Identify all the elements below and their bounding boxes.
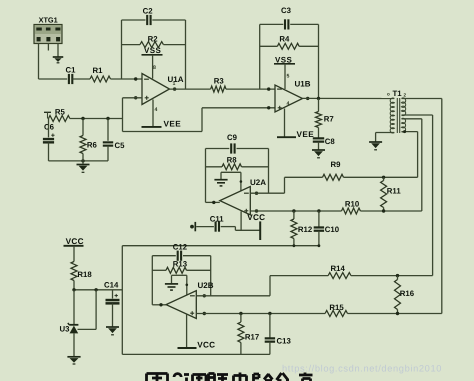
capacitor C6 <box>43 119 55 161</box>
svg-text:R15: R15 <box>329 303 344 312</box>
transformer T1 <box>387 89 407 133</box>
wire U1B output to transformer <box>303 97 395 100</box>
wire U2B inverting to R14 <box>196 276 270 296</box>
resistor R18 <box>71 262 92 290</box>
wire R1 to U1A inverting input <box>111 77 143 80</box>
ground near U2B <box>165 284 178 290</box>
wire U2A power pin <box>240 211 242 230</box>
power VEE for U1B <box>277 101 314 139</box>
capacitor C12 <box>173 242 188 260</box>
resistor R8 <box>206 155 269 169</box>
svg-text:4: 4 <box>287 101 290 107</box>
watermark <box>282 363 442 373</box>
node U1B output pin <box>306 97 309 100</box>
resistor R2 <box>122 35 186 48</box>
wire U2B power pin <box>186 314 188 348</box>
wire R18 node row <box>72 288 122 291</box>
wire bias to U1B noninverting input <box>123 106 276 131</box>
power VEE for U1A <box>142 100 182 129</box>
svg-text:C2: C2 <box>143 6 154 15</box>
svg-text:R11: R11 <box>387 186 402 195</box>
capacitor C10 <box>314 211 340 246</box>
svg-text:C6: C6 <box>44 123 55 132</box>
wire U2A feedback top <box>206 148 269 150</box>
ground near U2A <box>214 180 227 186</box>
resistor R11 <box>381 177 402 211</box>
resistor R3 <box>211 77 226 93</box>
resistor R15 <box>325 303 347 317</box>
svg-text:VCC: VCC <box>197 340 215 349</box>
svg-text:R1: R1 <box>93 66 104 75</box>
ground below C8 <box>312 150 325 158</box>
svg-text:C12: C12 <box>173 242 188 251</box>
wire R14 to tap vertical <box>351 274 433 277</box>
resistor R7 <box>316 98 334 138</box>
svg-text:4: 4 <box>155 107 158 113</box>
svg-text:https://blog.csdn.net/dengbin2: https://blog.csdn.net/dengbin2010 <box>282 363 442 373</box>
capacitor C14 <box>104 281 120 328</box>
resistor R13 <box>152 259 210 273</box>
svg-text:C10: C10 <box>325 225 340 234</box>
wire U2A inverting to R9 <box>250 177 284 193</box>
svg-text:8: 8 <box>153 65 156 71</box>
node U2A noninverting pin <box>255 209 258 212</box>
wire U1A feedback top <box>122 19 186 21</box>
wire U2B feedback right vertical <box>210 256 212 296</box>
wire T1 secondary bottom tap <box>402 130 418 177</box>
power VCC for U2B <box>178 340 216 349</box>
power VSS for U1A <box>142 46 163 78</box>
svg-text:R4: R4 <box>279 34 290 43</box>
op-amp U2A <box>220 178 266 215</box>
caption text <box>147 373 313 381</box>
wire XTG1 pin3 to ground <box>57 44 59 58</box>
svg-text:1: 1 <box>173 81 176 87</box>
ground below U3 <box>67 357 80 364</box>
wire bias bottom row <box>49 159 109 162</box>
svg-text:2: 2 <box>404 93 407 98</box>
ground below C14 <box>106 327 119 335</box>
wire R3 to U1B inverting input <box>226 87 275 90</box>
svg-text:U2B: U2B <box>198 281 214 290</box>
wire middle row <box>122 244 320 247</box>
capacitor C2 <box>143 6 154 25</box>
wire U2B ground hook <box>172 275 189 295</box>
wire U2A noninverting rail <box>250 209 421 212</box>
diode U3 (zener) <box>60 290 79 357</box>
node marker above R5 <box>44 112 51 118</box>
wire left long vertical <box>121 246 123 355</box>
resistor R5 <box>49 108 70 122</box>
svg-text:C9: C9 <box>227 133 238 142</box>
svg-text:R6: R6 <box>87 140 98 149</box>
resistor R16 <box>395 276 415 314</box>
svg-text:R3: R3 <box>214 77 225 86</box>
wire U2B noninverting rail <box>196 312 441 315</box>
svg-text:T1: T1 <box>393 89 403 98</box>
wire bottom row <box>122 353 270 355</box>
svg-text:C11: C11 <box>210 215 225 224</box>
svg-text:C3: C3 <box>281 6 292 15</box>
wire U1A feedback left vertical <box>121 20 123 79</box>
wire C11 to VCC bar <box>235 227 260 231</box>
resistor R9 <box>285 160 344 180</box>
power VSS for U1B <box>274 56 295 90</box>
svg-text:C8: C8 <box>325 137 336 146</box>
wire U2B feedback left vertical <box>151 256 153 305</box>
wire U2A output <box>206 201 220 204</box>
node U2B inverting pin <box>203 294 206 297</box>
power VCC for U2A <box>247 213 265 240</box>
svg-text:R18: R18 <box>77 270 92 279</box>
svg-text:R7: R7 <box>324 115 334 124</box>
resistor R1 <box>90 66 111 82</box>
wire U2A feedback right vertical <box>268 149 270 194</box>
wire T1 secondary tap3 <box>402 119 422 211</box>
svg-text:C13: C13 <box>277 337 292 346</box>
resistor R12 <box>291 211 313 246</box>
node U2A inverting pin <box>255 192 258 195</box>
wire XTG1 pin2 stub <box>47 44 49 51</box>
capacitor C13 <box>265 314 292 355</box>
wire U2A feedback left vertical <box>205 149 207 203</box>
resistor R14 <box>270 264 351 278</box>
svg-text:R16: R16 <box>400 289 415 298</box>
wire U1B feedback right vertical <box>318 24 320 98</box>
wire U1B feedback left vertical <box>259 24 261 89</box>
wire XTG1 pin1 to C1 <box>39 44 68 80</box>
connector XTG1 <box>34 15 62 43</box>
capacitor C11 <box>196 215 235 232</box>
wire U2A ground hook <box>221 172 242 191</box>
wire U2B feedback top <box>152 255 210 257</box>
node U1A output pin <box>173 87 176 90</box>
svg-text:R10: R10 <box>345 199 360 208</box>
wire T1 secondary top tap <box>402 99 442 314</box>
power VCC top left <box>64 237 84 262</box>
svg-text:C14: C14 <box>104 281 119 290</box>
resistor R4 <box>260 34 319 49</box>
wire T1 secondary tap2 <box>402 115 433 276</box>
svg-text:VEE: VEE <box>297 130 315 139</box>
svg-text:VCC: VCC <box>66 237 84 246</box>
capacitor C1 <box>66 65 77 84</box>
wire U2B output <box>152 303 166 306</box>
wire U1A output <box>170 88 211 90</box>
svg-text:U1A: U1A <box>168 75 184 84</box>
svg-text:R8: R8 <box>227 155 238 164</box>
svg-text:R12: R12 <box>298 225 313 234</box>
resistor R17 <box>238 314 259 355</box>
ground below T1 <box>369 142 382 150</box>
svg-text:U3: U3 <box>60 325 71 334</box>
svg-text:U2A: U2A <box>250 178 266 187</box>
wire T1 primary bottom to ground <box>376 133 395 143</box>
resistor R6 <box>80 119 98 161</box>
node U2B noninverting pin <box>203 312 206 315</box>
resistor R10 <box>342 199 361 214</box>
wire U3 bypass <box>78 290 97 330</box>
svg-text:R9: R9 <box>331 160 342 169</box>
terminal for C11 <box>190 222 195 231</box>
wire U1A feedback right vertical <box>185 20 187 89</box>
ground below XTG1 <box>53 57 64 63</box>
op-amp U1A <box>142 65 184 113</box>
op-amp U1B <box>275 80 311 112</box>
svg-text:C5: C5 <box>115 141 126 150</box>
capacitor C9 <box>227 133 238 154</box>
node U1A noninverting pin <box>134 96 137 99</box>
svg-text:R14: R14 <box>331 264 346 273</box>
svg-text:U1B: U1B <box>295 80 311 89</box>
capacitor C3 <box>281 6 292 30</box>
wire bias to U1A noninverting input <box>123 98 143 132</box>
svg-text:C1: C1 <box>66 65 77 74</box>
wire R9 to tap vertical <box>344 176 418 179</box>
svg-text:VEE: VEE <box>164 119 182 128</box>
svg-text:XTG1: XTG1 <box>39 15 58 24</box>
capacitor C5 <box>103 119 125 161</box>
svg-text:VCC: VCC <box>247 213 265 222</box>
svg-text:5: 5 <box>287 74 290 80</box>
capacitor C8 <box>313 137 336 150</box>
wire U1B feedback top <box>260 23 319 25</box>
svg-text:R17: R17 <box>245 332 259 341</box>
svg-text:o: o <box>387 92 390 97</box>
wire bias rail <box>70 117 123 120</box>
op-amp U2B <box>166 281 214 319</box>
ground below R6 <box>77 161 90 172</box>
wire C1 to R1 <box>73 78 91 80</box>
